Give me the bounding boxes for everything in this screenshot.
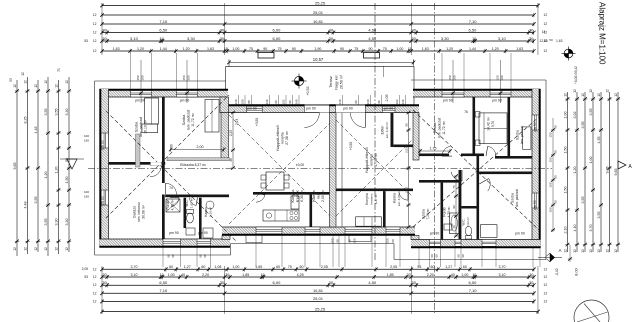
dining table left unit (266, 172, 284, 190)
kitchen counter left unit (263, 210, 299, 221)
svg-text:75: 75 (383, 47, 387, 51)
svg-text:100: 100 (141, 75, 145, 80)
svg-text:Előtér: Előtér (381, 125, 385, 135)
svg-text:1,27: 1,27 (184, 265, 191, 269)
wall H5 eloter south (393, 145, 413, 148)
svg-text:12: 12 (65, 80, 69, 84)
svg-text:90: 90 (452, 205, 456, 209)
svg-text:150: 150 (549, 207, 553, 212)
wall H1 left unit (109, 162, 166, 165)
wall V12 hall east right unit (477, 156, 480, 240)
svg-text:1,20: 1,20 (446, 47, 453, 51)
svg-text:+0,55: +0,55 (349, 142, 353, 151)
window extension lines top (130, 53, 132, 89)
svg-text:30: 30 (329, 280, 334, 285)
svg-text:12: 12 (544, 283, 548, 287)
wall V10 wc west right unit (459, 170, 462, 240)
roof hip diagonals right (413, 110, 540, 231)
svg-text:12: 12 (65, 247, 69, 251)
svg-text:1,00: 1,00 (168, 273, 175, 277)
svg-text:3,55: 3,55 (44, 109, 48, 116)
extension lines bottom middle (255, 236, 257, 268)
window left wall lower (101, 190, 108, 205)
svg-text:6,37 m²: 6,37 m² (374, 194, 378, 205)
bottom block extension lines (101, 266, 103, 314)
svg-text:12: 12 (24, 80, 28, 84)
svg-text:2,25: 2,25 (229, 130, 233, 136)
desk bottom right room (481, 225, 498, 238)
svg-text:sim. padozat: sim. padozat (515, 189, 519, 207)
svg-text:W.C.: W.C. (462, 218, 466, 225)
svg-text:Nappali-étkező: Nappali-étkező (276, 125, 280, 150)
svg-text:12: 12 (13, 84, 17, 88)
svg-text:3,30: 3,30 (441, 36, 450, 41)
svg-text:90: 90 (377, 100, 381, 104)
svg-text:1,44: 1,44 (469, 47, 476, 51)
svg-text:90: 90 (407, 166, 411, 170)
svg-text:30: 30 (529, 27, 534, 32)
svg-text:100: 100 (453, 75, 457, 80)
wall V1 left unit (162, 97, 165, 183)
interior dim line right unit west (408, 113, 410, 228)
bottom dimension block (102, 268, 534, 270)
svg-text:3,30: 3,30 (187, 36, 196, 41)
door arc szoba B right unit (488, 146, 496, 156)
svg-text:12: 12 (589, 249, 593, 253)
wall H6 room south (419, 180, 459, 183)
svg-text:12: 12 (93, 39, 97, 43)
washbasin right unit (444, 224, 452, 230)
svg-text:10,81: 10,81 (313, 19, 324, 24)
svg-text:12: 12 (93, 299, 97, 303)
svg-text:53: 53 (549, 38, 553, 42)
bed right unit (479, 113, 507, 144)
svg-text:1,90: 1,90 (314, 47, 321, 51)
svg-text:53: 53 (84, 39, 88, 43)
svg-text:26,56 m²: 26,56 m² (340, 74, 344, 89)
svg-text:Szoba: Szoba (516, 130, 520, 140)
svg-text:Kazán: Kazán (204, 207, 208, 217)
svg-text:lam. padozat: lam. padozat (520, 126, 524, 144)
left exterior wall (100, 89, 108, 248)
svg-text:60: 60 (461, 254, 465, 258)
fridge left unit (291, 196, 299, 209)
svg-text:1,20: 1,20 (183, 47, 190, 51)
svg-text:ker. 2,00 m²: ker. 2,00 m² (397, 190, 401, 206)
section arrow A right (618, 161, 626, 169)
step wall bottom left (222, 236, 230, 240)
svg-text:240: 240 (401, 99, 405, 104)
svg-text:30: 30 (103, 273, 107, 277)
svg-text:10: 10 (160, 273, 164, 277)
terrace door right unit bottom (345, 227, 372, 234)
svg-text:60: 60 (169, 265, 173, 269)
svg-text:2,03: 2,03 (405, 147, 409, 153)
svg-text:60: 60 (167, 254, 171, 258)
svg-text:6,00: 6,00 (273, 36, 282, 41)
svg-text:2,03: 2,03 (405, 187, 409, 193)
svg-text:12: 12 (13, 247, 17, 251)
wall V13 bedroom divider 2 right unit (508, 97, 511, 158)
svg-text:12: 12 (93, 283, 97, 287)
svg-text:12: 12 (93, 22, 97, 26)
svg-text:3,55: 3,55 (55, 109, 59, 116)
svg-text:12: 12 (581, 249, 585, 253)
svg-text:1,63: 1,63 (207, 47, 214, 51)
svg-text:4,55: 4,55 (597, 137, 601, 144)
svg-text:10: 10 (159, 36, 164, 41)
svg-text:90: 90 (354, 100, 358, 104)
svg-text:1,00: 1,00 (461, 273, 468, 277)
svg-text:150: 150 (549, 132, 553, 137)
wall V3 wc east (199, 198, 202, 239)
window front R2 (490, 91, 511, 97)
svg-text:4,70 m²: 4,70 m² (447, 207, 451, 218)
window bottom right B (482, 240, 496, 247)
svg-text:12: 12 (544, 49, 548, 53)
svg-text:30: 30 (225, 273, 229, 277)
svg-text:+0,53: +0,53 (306, 86, 310, 95)
svg-text:1,20: 1,20 (492, 47, 499, 51)
svg-text:3,55: 3,55 (44, 219, 48, 226)
svg-text:25,01: 25,01 (313, 296, 324, 301)
threshold steps entry left (246, 235, 262, 243)
svg-text:30,68 m²: 30,68 m² (142, 204, 146, 219)
svg-text:150: 150 (353, 238, 357, 243)
svg-text:4,70 m²: 4,70 m² (171, 200, 175, 211)
low wall hall (167, 158, 230, 161)
svg-text:90: 90 (340, 47, 344, 51)
recessed front wall middle (220, 105, 419, 112)
window front L2 (177, 91, 198, 97)
svg-text:W.C.: W.C. (185, 199, 189, 206)
svg-text:12: 12 (34, 84, 38, 88)
svg-text:1,85: 1,85 (242, 273, 249, 277)
svg-text:7,10: 7,10 (159, 19, 168, 24)
svg-text:3,55: 3,55 (597, 212, 601, 219)
washbasin left unit (186, 228, 195, 235)
svg-text:ker.: ker. (317, 193, 321, 199)
svg-text:kredenc: kredenc (370, 193, 374, 204)
svg-text:100: 100 (84, 134, 89, 138)
svg-text:1,08: 1,08 (214, 265, 221, 269)
threshold steps terrace right (349, 235, 371, 241)
svg-text:60: 60 (554, 200, 558, 204)
svg-text:1,50: 1,50 (564, 147, 568, 154)
svg-text:12: 12 (93, 13, 97, 17)
svg-text:pm 90: pm 90 (101, 140, 105, 150)
svg-text:Kamra: Kamra (312, 190, 316, 202)
svg-text:12: 12 (55, 247, 59, 251)
svg-text:10: 10 (472, 36, 477, 41)
svg-text:2,00: 2,00 (197, 145, 204, 149)
interior dims left (171, 149, 224, 151)
svg-text:1,92 m²: 1,92 m² (190, 198, 194, 208)
svg-text:4,10: 4,10 (573, 225, 577, 232)
svg-text:3,55: 3,55 (589, 109, 593, 116)
toilet right unit (465, 226, 471, 235)
window right wall lower (532, 193, 539, 208)
svg-text:11,72 m²: 11,72 m² (442, 120, 446, 134)
step wall bottom right (411, 236, 419, 240)
svg-text:150: 150 (136, 75, 140, 80)
svg-text:12: 12 (44, 247, 48, 251)
svg-text:1,00: 1,00 (232, 47, 239, 51)
top wall right unit (413, 90, 541, 97)
svg-text:240: 240 (295, 99, 299, 104)
svg-text:pm 90: pm 90 (135, 99, 145, 103)
svg-text:lam. padozat: lam. padozat (139, 117, 143, 137)
svg-text:25,25: 25,25 (315, 306, 326, 311)
wall H10 bedroom south right unit (419, 154, 449, 157)
svg-text:240: 240 (265, 99, 269, 104)
svg-text:12: 12 (589, 89, 593, 93)
svg-text:60: 60 (276, 265, 280, 269)
kitchen counter right unit (356, 217, 382, 226)
svg-text:1,92 m²: 1,92 m² (466, 217, 470, 227)
svg-text:25,25: 25,25 (315, 0, 326, 5)
svg-text:pm 90: pm 90 (384, 107, 394, 111)
svg-text:8,00: 8,00 (575, 268, 579, 275)
svg-text:60: 60 (435, 254, 439, 258)
svg-text:Konyha: Konyha (365, 193, 369, 205)
svg-text:2,05: 2,05 (82, 267, 88, 271)
svg-text:9,85: 9,85 (614, 169, 618, 176)
svg-text:90: 90 (369, 47, 373, 51)
svg-text:12: 12 (573, 249, 577, 253)
svg-text:Terasz: Terasz (328, 76, 333, 88)
section line vertical 2 (434, 3, 436, 313)
left dimension block (16, 80, 18, 256)
svg-text:12: 12 (564, 249, 568, 253)
bathtub right unit (450, 213, 460, 234)
window right wall upper (532, 115, 539, 130)
svg-text:12: 12 (614, 249, 618, 253)
svg-text:12: 12 (573, 89, 577, 93)
svg-text:6,50: 6,50 (159, 27, 168, 32)
svg-text:30: 30 (529, 280, 534, 285)
roof outline (95, 80, 226, 82)
svg-text:6,00: 6,00 (273, 280, 282, 285)
svg-text:3,55: 3,55 (581, 197, 585, 204)
right exterior wall (532, 89, 540, 248)
wall V6 kitchen right unit (383, 191, 386, 227)
svg-text:30: 30 (102, 27, 107, 32)
svg-text:60: 60 (299, 265, 303, 269)
svg-text:30: 30 (220, 27, 225, 32)
window bottom left A (163, 239, 181, 246)
svg-text:60: 60 (457, 254, 461, 258)
svg-text:100: 100 (241, 99, 245, 104)
svg-text:pm 90: pm 90 (169, 231, 179, 235)
svg-text:1,20: 1,20 (573, 167, 577, 174)
svg-text:16,10 m²: 16,10 m² (144, 119, 148, 134)
svg-text:150: 150 (386, 238, 390, 243)
interior dim line right unit hall (455, 176, 457, 236)
svg-text:4,50: 4,50 (368, 280, 377, 285)
svg-text:240: 240 (338, 99, 342, 104)
svg-text:4,48: 4,48 (34, 127, 38, 134)
svg-text:12: 12 (544, 299, 548, 303)
entry door left unit (304, 105, 329, 113)
svg-text:27,38 m²: 27,38 m² (285, 130, 289, 145)
svg-text:2,05: 2,05 (390, 265, 397, 269)
svg-text:pm 90: pm 90 (533, 200, 537, 210)
right dimension block (567, 92, 569, 252)
svg-text:240: 240 (234, 99, 238, 104)
right unit west wall (413, 113, 419, 161)
wall V11 bath divider right unit (441, 183, 444, 240)
top block extension lines (101, 3, 103, 55)
svg-text:3,10: 3,10 (130, 36, 139, 41)
svg-text:2,20: 2,20 (202, 273, 209, 277)
svg-text:102: 102 (395, 99, 399, 104)
svg-text:150: 150 (331, 238, 335, 243)
svg-text:2,05: 2,05 (321, 265, 328, 269)
wall H2 bath north (165, 195, 229, 198)
wall V5 kamra left unit (310, 195, 313, 227)
svg-text:6,50: 6,50 (469, 27, 478, 32)
svg-text:90: 90 (405, 123, 409, 127)
door arc kitchen left (256, 195, 265, 202)
chimney left (258, 53, 274, 59)
svg-text:93: 93 (417, 265, 421, 269)
svg-text:kredenc: kredenc (296, 190, 300, 203)
window recessed 2 (383, 106, 396, 112)
svg-text:3,30: 3,30 (65, 219, 69, 226)
svg-text:12: 12 (55, 84, 59, 88)
svg-text:pm 90: pm 90 (247, 107, 257, 111)
svg-text:12: 12 (93, 291, 97, 295)
svg-text:12: 12 (34, 247, 38, 251)
svg-text:9,85: 9,85 (13, 163, 17, 170)
svg-text:60: 60 (203, 254, 207, 258)
step wall top left (220, 97, 229, 113)
svg-text:1,50: 1,50 (65, 177, 69, 184)
svg-text:+0,55: +0,55 (255, 118, 259, 127)
svg-text:1,63: 1,63 (556, 39, 563, 43)
svg-text:10: 10 (472, 273, 476, 277)
svg-text:ker. 3,30 m²: ker. 3,30 m² (385, 122, 389, 138)
svg-text:60: 60 (463, 265, 467, 269)
svg-text:3,70: 3,70 (491, 121, 495, 127)
bottom wall right unit (411, 240, 541, 248)
window front R1 (442, 91, 464, 97)
bottom wall left unit (100, 239, 231, 247)
svg-text:1,20: 1,20 (44, 172, 48, 179)
svg-text:10,57: 10,57 (313, 57, 324, 62)
svg-text:30: 30 (329, 27, 334, 32)
svg-text:6,00: 6,00 (273, 27, 282, 32)
svg-text:konyha: konyha (281, 132, 285, 143)
svg-text:100: 100 (84, 190, 89, 194)
svg-text:53: 53 (84, 275, 88, 279)
svg-text:1,20: 1,20 (55, 167, 59, 174)
top wall left unit (100, 90, 229, 97)
svg-text:14,42 m²: 14,42 m² (487, 116, 491, 131)
svg-text:6,50: 6,50 (159, 280, 168, 285)
shelf below closet (142, 124, 158, 133)
svg-text:1,65: 1,65 (255, 265, 262, 269)
svg-text:30: 30 (407, 273, 411, 277)
svg-text:konyha: konyha (370, 154, 374, 165)
svg-text:12: 12 (44, 80, 48, 84)
svg-text:88: 88 (247, 100, 251, 104)
washing machine left unit (203, 228, 213, 238)
shower left unit (166, 199, 180, 212)
svg-text:12: 12 (544, 291, 548, 295)
window bottom middle R (386, 227, 400, 234)
svg-text:12: 12 (581, 93, 585, 97)
svg-text:10: 10 (261, 273, 265, 277)
door arc bottom room right unit (488, 179, 491, 192)
svg-text:Szoba: Szoba (182, 114, 186, 126)
interior dims 175 right (420, 150, 450, 152)
svg-text:1,00: 1,00 (589, 157, 593, 164)
svg-text:pm 90: pm 90 (198, 231, 208, 235)
svg-text:3,02: 3,02 (573, 112, 577, 119)
svg-text:12: 12 (93, 275, 97, 279)
svg-text:9,85: 9,85 (606, 167, 610, 174)
svg-text:90: 90 (288, 100, 292, 104)
svg-text:30: 30 (529, 273, 533, 277)
svg-text:60: 60 (201, 265, 205, 269)
svg-text:60: 60 (554, 150, 558, 154)
svg-text:2,10: 2,10 (564, 227, 568, 234)
svg-text:75: 75 (249, 47, 253, 51)
bottom wall middle recessed (222, 227, 415, 235)
svg-text:12: 12 (606, 249, 610, 253)
roof diagonals middle right (336, 120, 413, 197)
svg-text:1,85: 1,85 (387, 273, 394, 277)
svg-text:pm 90: pm 90 (306, 107, 316, 111)
svg-text:1,00: 1,00 (396, 47, 403, 51)
svg-text:12: 12 (93, 31, 97, 35)
svg-text:pm 90: pm 90 (515, 231, 525, 235)
svg-text:Alaprajz M=1:100: Alaprajz M=1:100 (598, 2, 607, 65)
svg-text:240: 240 (366, 99, 370, 104)
svg-text:60: 60 (431, 265, 435, 269)
svg-text:90: 90 (274, 100, 278, 104)
svg-text:1,27: 1,27 (445, 265, 452, 269)
terrace dimension 10,57 (229, 61, 414, 63)
entry door right unit (336, 105, 366, 113)
svg-text:3,30: 3,30 (55, 219, 59, 226)
svg-text:4,48: 4,48 (24, 202, 28, 209)
svg-text:Szoba: Szoba (511, 193, 515, 203)
svg-text:3,70: 3,70 (130, 265, 137, 269)
svg-text:25,01: 25,01 (313, 10, 324, 15)
chimney right (364, 53, 380, 59)
wall V8 eloter right unit (391, 113, 394, 148)
svg-text:Szoba: Szoba (422, 209, 426, 219)
svg-text:12: 12 (24, 247, 28, 251)
window bottom right WC (455, 240, 461, 247)
svg-text:-0,02: -0,02 (555, 268, 559, 275)
svg-text:30: 30 (220, 36, 225, 41)
svg-text:70: 70 (57, 68, 61, 72)
svg-text:17,33 m²: 17,33 m² (374, 152, 378, 167)
svg-text:7,10: 7,10 (159, 288, 168, 293)
svg-text:1,00: 1,00 (232, 265, 239, 269)
svg-text:150: 150 (549, 182, 553, 187)
svg-text:1,20: 1,20 (137, 47, 144, 51)
door arc wc left (189, 198, 196, 206)
door arc entry left unit (304, 113, 319, 128)
svg-text:12: 12 (544, 13, 548, 17)
svg-text:3,30: 3,30 (65, 109, 69, 116)
door arc H1 garage (150, 165, 162, 177)
